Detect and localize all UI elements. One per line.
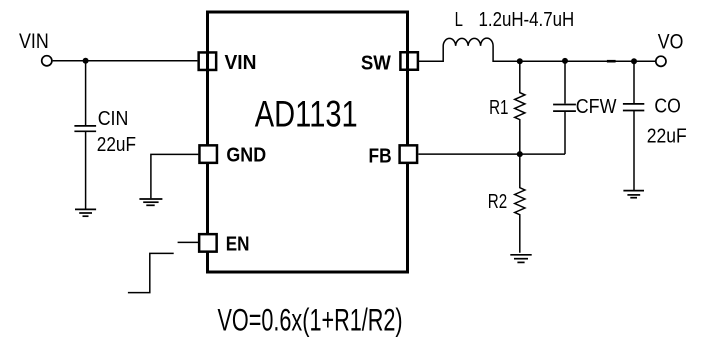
svg-text:GND: GND xyxy=(226,143,266,166)
svg-text:AD1131: AD1131 xyxy=(255,93,358,134)
svg-text:CO: CO xyxy=(654,96,680,118)
svg-text:VO: VO xyxy=(658,30,684,53)
svg-text:22uF: 22uF xyxy=(647,126,687,148)
svg-text:CFW: CFW xyxy=(576,96,617,118)
svg-text:FB: FB xyxy=(369,145,392,168)
svg-text:R1: R1 xyxy=(489,97,508,119)
svg-text:22uF: 22uF xyxy=(97,134,136,156)
svg-text:R2: R2 xyxy=(488,191,507,213)
svg-text:VIN: VIN xyxy=(225,51,257,74)
svg-text:VO=0.6x(1+R1/R2): VO=0.6x(1+R1/R2) xyxy=(218,302,403,337)
svg-text:L: L xyxy=(455,9,463,31)
svg-text:SW: SW xyxy=(361,51,391,74)
svg-text:1.2uH-4.7uH: 1.2uH-4.7uH xyxy=(479,9,575,31)
svg-text:EN: EN xyxy=(226,233,250,256)
svg-text:VIN: VIN xyxy=(19,30,49,53)
svg-text:CIN: CIN xyxy=(98,108,129,130)
